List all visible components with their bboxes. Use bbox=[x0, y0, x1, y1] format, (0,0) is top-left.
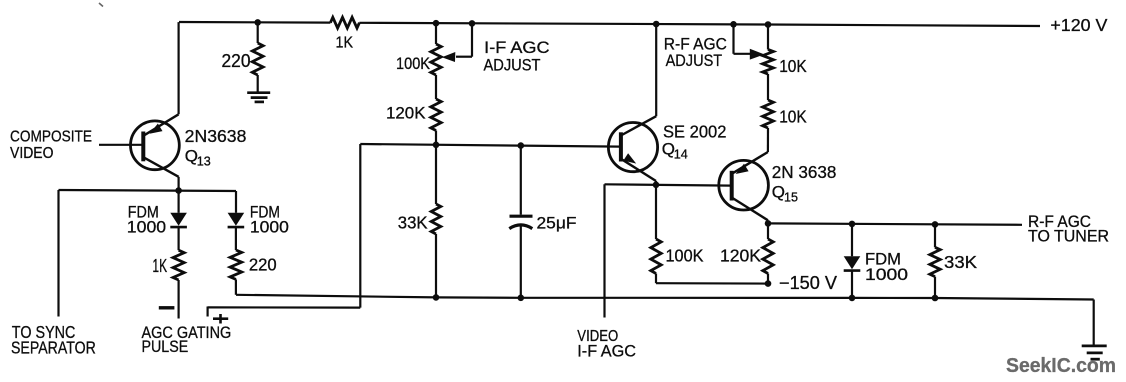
diode FDM1000 (second) bbox=[235, 191, 237, 213]
svg-text:14: 14 bbox=[674, 146, 688, 161]
wiper arm (I-F AGC ADJUST) bbox=[471, 23, 473, 56]
node dot: bus/25uF bbox=[518, 295, 525, 302]
svg-text:100K: 100K bbox=[666, 245, 704, 265]
node dot: bus / 33K right bbox=[932, 295, 939, 302]
resistor 1K (series in +120V rail) bbox=[330, 17, 359, 28]
capacitor 25uF bbox=[520, 146, 522, 215]
node dot: Q13 emitter junction bbox=[175, 187, 182, 194]
speck artifact bbox=[99, 3, 103, 7]
node dot: R-F line / 33K bbox=[932, 221, 939, 228]
Q15 emitter arrow (PNP) bbox=[736, 164, 749, 174]
minus terminal mark bbox=[159, 306, 175, 309]
node dot: rail / 10K chain bbox=[765, 21, 772, 28]
wire: R-F AGC output line bbox=[768, 223, 1022, 224]
resistor 120K (upper) bbox=[431, 99, 441, 131]
resistor 100K (lower) bbox=[655, 185, 657, 239]
wire: AGC gating pulse line bbox=[207, 307, 209, 317]
wire: video I-F AGC tap bbox=[603, 184, 605, 317]
node dot: rail / R-F wiper bbox=[730, 21, 737, 28]
plus terminal mark bbox=[213, 317, 228, 320]
svg-text:1K: 1K bbox=[152, 256, 167, 276]
wire: to sync separator tap bbox=[57, 190, 59, 317]
transistor Q13 circle bbox=[131, 121, 180, 170]
svg-text:10K: 10K bbox=[779, 56, 807, 76]
node dot: bus/33K-left bbox=[433, 294, 440, 301]
svg-text:1000: 1000 bbox=[865, 265, 908, 284]
resistor 120K (lower) bbox=[767, 223, 769, 239]
wiper arm (R-F AGC ADJUST) bbox=[732, 24, 734, 54]
ground (below 220) bbox=[247, 91, 270, 94]
node dot: -150V junction bbox=[765, 280, 772, 287]
resistor 10K (lower) bbox=[763, 100, 774, 128]
Q13 collector diagonal bbox=[143, 157, 178, 177]
transistor Q14 circle bbox=[608, 123, 657, 172]
node dot: Q15 collector bbox=[765, 220, 772, 227]
svg-text:TO TUNER: TO TUNER bbox=[1028, 226, 1109, 245]
svg-text:1K: 1K bbox=[336, 35, 354, 52]
ground (right) bbox=[1093, 300, 1095, 346]
svg-text:220: 220 bbox=[249, 255, 277, 275]
svg-text:SEPARATOR: SEPARATOR bbox=[11, 338, 96, 358]
svg-text:100K: 100K bbox=[396, 54, 431, 73]
resistor 33K (right) bbox=[934, 224, 936, 247]
svg-text:33K: 33K bbox=[398, 212, 428, 232]
node dot: rail / I-F wiper bbox=[469, 20, 476, 27]
wire: mid distribution line (Q14 base) bbox=[360, 144, 621, 147]
svg-text:−150 V: −150 V bbox=[779, 273, 837, 293]
svg-text:ADJUST: ADJUST bbox=[666, 51, 723, 70]
resistor 220 (second branch) bbox=[230, 250, 242, 279]
svg-text:33K: 33K bbox=[944, 252, 977, 272]
svg-text:ADJUST: ADJUST bbox=[484, 55, 541, 74]
Q14 base bar bbox=[619, 132, 623, 161]
transistor Q15 circle bbox=[719, 160, 769, 210]
Q14 emitter arrow (NPN) bbox=[623, 153, 636, 163]
svg-text:I-F AGC: I-F AGC bbox=[484, 38, 549, 57]
svg-text:I-F AGC: I-F AGC bbox=[577, 341, 636, 360]
node dot: rail / 220 resistor bbox=[254, 19, 261, 26]
potentiometer 10K (upper) bbox=[767, 25, 769, 50]
svg-text:25μF: 25μF bbox=[537, 214, 577, 233]
wire: bottom bus bbox=[236, 295, 1094, 300]
potentiometer 100K (I-F AGC) bbox=[435, 23, 437, 44]
Q13 emitter diagonal bbox=[143, 114, 178, 136]
svg-text:13: 13 bbox=[197, 154, 211, 169]
svg-text:2N 3638: 2N 3638 bbox=[772, 162, 837, 182]
resistor 220 (to ground) bbox=[257, 22, 259, 43]
svg-text:SeekIC.com: SeekIC.com bbox=[1006, 354, 1116, 377]
wiper arrowhead (I-F) bbox=[442, 52, 456, 62]
node dot: Q14 emitter junction bbox=[653, 182, 660, 189]
Q14 emitter diagonal bbox=[621, 159, 656, 181]
Q15 emitter diagonal bbox=[732, 152, 768, 174]
wire: composite video to Q13 base bbox=[99, 144, 143, 146]
svg-text:120K: 120K bbox=[386, 104, 426, 123]
svg-text:VIDEO: VIDEO bbox=[10, 145, 54, 162]
Q15 base bar bbox=[730, 171, 734, 201]
Q15 collector diagonal bbox=[732, 198, 768, 221]
svg-text:10K: 10K bbox=[779, 106, 807, 126]
svg-text:+120 V: +120 V bbox=[1050, 15, 1107, 35]
svg-text:COMPOSITE: COMPOSITE bbox=[10, 128, 92, 145]
diode FDM1000 (left) bbox=[178, 191, 180, 213]
node dot: mid line / 25uF bbox=[518, 142, 525, 149]
svg-text:2N3638: 2N3638 bbox=[185, 126, 247, 146]
diode FDM1000 (right) bbox=[851, 224, 853, 256]
Q13 base bar bbox=[141, 132, 145, 162]
svg-text:15: 15 bbox=[784, 189, 798, 204]
node dot: R-F line / FDM diode bbox=[849, 221, 856, 228]
svg-text:PULSE: PULSE bbox=[142, 337, 189, 356]
resistor 33K (left) bbox=[435, 145, 437, 204]
node dot: bus / FDM diode bbox=[849, 295, 856, 302]
wire: +120V supply rail bbox=[179, 21, 330, 24]
svg-text:120K: 120K bbox=[720, 245, 761, 265]
node dot: mid line / 33K bbox=[433, 142, 440, 149]
svg-text:220: 220 bbox=[222, 51, 251, 71]
Q13 emitter arrow (PNP) bbox=[150, 124, 163, 134]
wire: Q13 emitter node horizontal bbox=[59, 190, 237, 191]
resistor 1K (left branch) bbox=[178, 227, 180, 250]
wiper arrowhead (R-F) bbox=[750, 49, 764, 60]
svg-text:1000: 1000 bbox=[250, 218, 289, 236]
svg-text:1000: 1000 bbox=[127, 218, 166, 236]
Q14 collector diagonal bbox=[621, 116, 656, 135]
wire: Q14 emitter line to Q15 base bbox=[605, 184, 732, 185]
wire: Q13 emitter to rail bbox=[178, 22, 180, 114]
node dot: rail / Q14 collector bbox=[653, 21, 660, 28]
node dot: rail / 100K pot bbox=[433, 20, 440, 27]
